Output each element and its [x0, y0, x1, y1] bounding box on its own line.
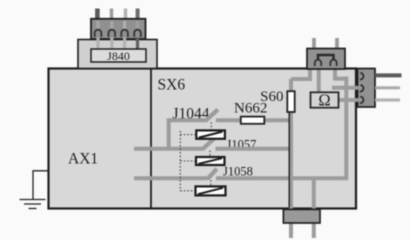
svg-text:SX6: SX6 [158, 77, 186, 94]
svg-text:Ω: Ω [318, 90, 330, 109]
svg-text:S60: S60 [260, 89, 283, 105]
svg-text:AX1: AX1 [68, 151, 98, 168]
svg-text:J840: J840 [107, 49, 130, 63]
